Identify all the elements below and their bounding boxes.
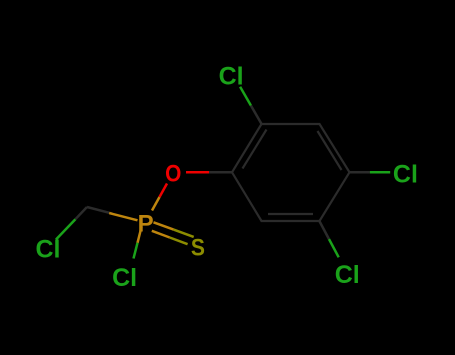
bond P-O	[152, 184, 167, 211]
bond C5-Cl5	[319, 221, 338, 257]
bond C4-Cl4	[350, 171, 391, 174]
bond P-Cl2	[134, 227, 142, 259]
svg-text:Cl: Cl	[112, 264, 137, 292]
bond CH2-P	[87, 207, 138, 220]
svg-text:Cl: Cl	[36, 235, 61, 263]
svg-text:Cl: Cl	[335, 261, 360, 289]
bond O-C1 (aryl ether)	[186, 171, 232, 174]
bond C2-Cl3	[240, 87, 262, 125]
svg-text:P: P	[138, 211, 154, 238]
svg-text:Cl: Cl	[393, 161, 418, 189]
svg-text:Cl: Cl	[219, 63, 244, 91]
bond Cl1-CH2 (chloromethyl C-Cl)	[56, 207, 87, 240]
svg-text:S: S	[191, 234, 205, 261]
svg-text:O: O	[165, 160, 181, 187]
bond P=S double	[152, 222, 194, 244]
benzene ring	[232, 124, 350, 221]
